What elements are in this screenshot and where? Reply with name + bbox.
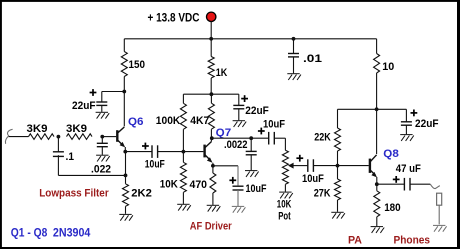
svg-text:.0022: .0022 — [224, 139, 248, 151]
resistor 180 (Q8 emitter) — [374, 184, 380, 226]
label 100K — [156, 115, 181, 127]
junction top rail at 13.8VDC feed — [209, 37, 213, 41]
junction node C at 1K — [210, 92, 214, 96]
capacitor .1 (lowpass shunt) — [53, 152, 64, 157]
ground below phone jack — [433, 225, 447, 231]
svg-text:Q6: Q6 — [128, 116, 144, 128]
wire Q7 collector up — [210, 138, 212, 141]
ground below 22uF — [96, 112, 110, 118]
ground below 2K2 — [119, 214, 133, 220]
polarity + of 47uF — [393, 176, 400, 183]
svg-text:27K: 27K — [314, 188, 331, 200]
input continuation squiggle — [5, 129, 12, 144]
label Lowpass Filter — [39, 187, 109, 199]
wire Q7 collector output — [212, 137, 269, 139]
svg-text:2K2: 2K2 — [131, 187, 152, 199]
wire Q8 emitter down — [376, 177, 378, 184]
capacitor 10uF (Q7 output coupling) — [269, 132, 275, 145]
wire input to first 3K9 — [9, 136, 29, 138]
junction lowpass node B (Q6 base) — [100, 135, 104, 139]
wire output 10uF to pot — [274, 138, 285, 150]
svg-text:10K: 10K — [277, 199, 292, 211]
label 10K — [160, 178, 178, 190]
resistor 100K (Q7 base bias upper) — [180, 94, 186, 151]
junction Q8 emitter node — [375, 182, 379, 186]
svg-text:10K: 10K — [160, 178, 178, 190]
wire Q7 emitter to bypass cap — [213, 166, 238, 186]
wire Q7 base node to base — [183, 151, 203, 153]
resistor 27K (Q8 base bias lower) — [335, 166, 341, 212]
resistor 10K (Q7 base bias lower) — [180, 152, 186, 204]
label .0022 — [224, 139, 248, 151]
junction node D at 10 ohm — [375, 107, 379, 111]
transistor Q8 — [370, 155, 377, 178]
svg-text:3K9: 3K9 — [27, 123, 48, 135]
svg-text:10uF: 10uF — [302, 173, 324, 185]
svg-text:.1: .1 — [66, 151, 75, 163]
label Q8 — [383, 148, 399, 160]
label 1K — [216, 67, 228, 79]
wire 47uF to phones — [410, 183, 430, 185]
label 2K2 — [131, 187, 152, 199]
resistor 2K2 (Q6 emitter) — [123, 152, 129, 214]
svg-text:Pot: Pot — [278, 211, 291, 223]
svg-text:100K: 100K — [156, 115, 181, 127]
transistor Q6 — [117, 127, 125, 147]
label 10uF emitter bypass — [246, 183, 267, 195]
capacitor 22uF (Q6 collector bypass) — [96, 102, 107, 105]
capacitor 10uF (wiper to Q8 coupling) — [308, 159, 314, 172]
junction lowpass node A — [57, 135, 61, 139]
wire node B to Q6 base — [102, 136, 116, 138]
ground below node C 22uF — [233, 121, 247, 127]
svg-text:180: 180 — [384, 202, 401, 214]
svg-text:10: 10 — [382, 61, 394, 73]
svg-text:22K: 22K — [314, 131, 331, 143]
label .01 — [303, 53, 322, 65]
wire to 22uF bypass cap — [102, 92, 125, 103]
svg-text:47 uF: 47 uF — [396, 163, 421, 175]
ground below .01 — [287, 74, 301, 80]
svg-text:22uF: 22uF — [245, 105, 269, 117]
label AF Driver — [190, 221, 233, 233]
junction Q6 emitter node — [123, 150, 127, 154]
wire 10uF to Q7 base divider — [158, 151, 184, 153]
wire Q8 collector column — [376, 109, 378, 154]
label PA — [348, 234, 362, 246]
label 10 ohm — [382, 61, 394, 73]
resistor 3K9 (first, lowpass series) — [29, 134, 55, 140]
junction Q6 collector / 22uF bypass — [122, 90, 126, 94]
svg-text:10uF: 10uF — [263, 118, 285, 130]
label 3K9 first — [27, 123, 48, 135]
polarity + of output 10uF — [258, 128, 265, 135]
resistor 470 (Q7 emitter) — [210, 166, 216, 205]
capacitor .01 (rail bypass) — [288, 39, 299, 74]
label 150 — [129, 59, 146, 71]
label 22K — [314, 131, 331, 143]
ground below 470 — [207, 205, 221, 211]
wire Q6 emitter to 10uF coupling — [125, 151, 152, 153]
svg-text:2N3904: 2N3904 — [53, 225, 91, 239]
label 10K pot — [277, 199, 292, 211]
capacitor 22uF (node C decoupling) — [233, 94, 244, 120]
capacitor 10uF (Q6-Q7 coupling) — [152, 145, 158, 158]
label 22uF node C — [245, 105, 269, 117]
svg-text:.022: .022 — [91, 163, 111, 175]
label Q7 — [216, 127, 232, 139]
label 470 — [190, 179, 208, 191]
ground below pot — [279, 192, 293, 198]
svg-text:Q8: Q8 — [383, 148, 399, 160]
resistor 3K9 (second, lowpass series) — [67, 134, 93, 140]
svg-text:150: 150 — [129, 59, 146, 71]
svg-text:AF Driver: AF Driver — [190, 221, 233, 233]
label + 13.8 VDC — [148, 10, 200, 24]
wire from +13.8VDC terminal down to top rail — [210, 22, 212, 39]
ground below .022 — [96, 155, 110, 161]
junction Q7 base node — [182, 150, 186, 154]
label 10uF wiper — [302, 173, 324, 185]
capacitor .022 (Q6 base shunt) — [97, 137, 108, 155]
label 4K7 — [190, 115, 209, 127]
svg-text:10uF: 10uF — [145, 159, 165, 171]
svg-text:PA: PA — [348, 234, 362, 246]
ground below 10K — [177, 204, 191, 210]
svg-text:Phones: Phones — [394, 234, 431, 246]
wire Q8 emitter to 47uF — [377, 183, 404, 185]
wire Q6 emitter to node — [124, 147, 126, 152]
phone jack symbol — [437, 193, 442, 224]
ground below .0022 — [245, 171, 259, 177]
label .022 — [91, 163, 111, 175]
svg-text:22uF: 22uF — [415, 118, 439, 130]
label 180 — [384, 202, 401, 214]
label 22uF — [72, 100, 96, 112]
label 10uF coupling — [145, 159, 165, 171]
wire wiper 10uF to Q8 base node — [313, 165, 368, 167]
transistor Q7 — [205, 142, 213, 163]
svg-text:4K7: 4K7 — [190, 115, 209, 127]
label 27K — [314, 188, 331, 200]
polarity + of 22uF bypass — [90, 89, 97, 96]
polarity + of coupling 10uF — [142, 143, 149, 150]
wire top supply rail — [124, 38, 376, 40]
label 47 uF — [396, 163, 421, 175]
svg-text:Q7: Q7 — [216, 127, 232, 139]
label Pot — [278, 211, 291, 223]
junction .1 feedback tap — [124, 174, 128, 178]
svg-text:10uF: 10uF — [246, 183, 267, 195]
polarity + of node C 22uF — [241, 95, 248, 102]
label Q6 — [128, 116, 144, 128]
junction Q8 base node — [336, 164, 340, 168]
resistor 150 (Q6 collector load) — [121, 39, 127, 92]
label 22uF node D — [415, 118, 439, 130]
label .1 — [66, 151, 75, 163]
wire Q6 collector column — [123, 92, 125, 127]
polarity + of wiper 10uF — [296, 155, 303, 162]
capacitor 10uF (Q7 emitter bypass) — [233, 186, 244, 190]
ground below emitter bypass 10uF — [232, 206, 246, 212]
wire 22uF to ground — [101, 105, 103, 112]
label Q1 - Q8 2N3904 — [11, 225, 91, 239]
junction Q7 emitter node — [211, 164, 215, 168]
wire Q7 emitter down — [212, 163, 214, 166]
svg-text:470: 470 — [190, 179, 208, 191]
ground below node D 22uF — [400, 135, 414, 141]
resistor 10 (PA decoupling) — [374, 39, 380, 110]
wire decoupled rail (node C) — [183, 93, 238, 95]
resistor 4K7 (Q7 collector load) — [208, 94, 214, 138]
ground below 27K — [331, 212, 345, 218]
label 10uF output — [263, 118, 285, 130]
wire Q8 supply branch (node D) — [338, 108, 407, 110]
wire bypass 10uF to ground — [237, 190, 239, 206]
svg-text:+ 13.8 VDC: + 13.8 VDC — [148, 10, 200, 24]
polarity + of node D 22uF — [411, 110, 418, 117]
svg-text:1K: 1K — [216, 67, 228, 79]
junction Q7 collector node — [210, 136, 214, 140]
resistor 1K (decoupling feed) — [208, 39, 214, 94]
svg-text:22uF: 22uF — [72, 100, 96, 112]
polarity + of emitter bypass 10uF — [229, 177, 236, 184]
capacitor 47uF (output coupling) — [404, 178, 410, 191]
ground below 180 — [371, 227, 385, 233]
junction .0022 tap — [249, 136, 253, 140]
svg-text:3K9: 3K9 — [66, 123, 87, 135]
label Phones — [394, 234, 431, 246]
svg-text:Q1 - Q8: Q1 - Q8 — [11, 225, 48, 239]
phones continuation squiggle — [430, 184, 440, 188]
svg-text:.01: .01 — [303, 53, 322, 65]
label 3K9 second — [66, 123, 87, 135]
resistor 22K (Q8 base bias upper) — [335, 109, 341, 165]
capacitor 22uF (node D decoupling) — [401, 109, 412, 134]
potentiometer wiper arrow — [288, 163, 308, 169]
power terminal +13.8VDC (red dot) — [207, 12, 216, 21]
junction top rail at .01 bypass — [292, 37, 296, 41]
potentiometer 10K body — [282, 150, 288, 191]
capacitor .0022 (collector shunt) — [246, 138, 257, 170]
svg-text:Lowpass Filter: Lowpass Filter — [39, 187, 109, 199]
wire .1 cap to Q6 emitter node — [58, 155, 125, 175]
wire node A down to .1 cap — [57, 137, 59, 152]
